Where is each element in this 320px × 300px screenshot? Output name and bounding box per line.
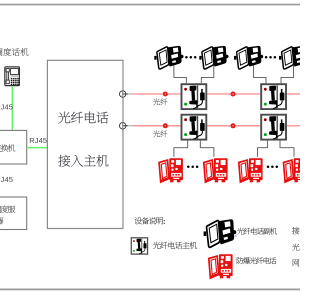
fiber line row2 seg2 [207,125,260,127]
legend label exproof [237,257,277,264]
edge char 光 [292,244,299,251]
fiber phone host unit U4 [261,115,286,140]
dispatch desk phone icon [5,67,20,86]
edge char 接 [292,227,299,234]
server box label line2 [0,217,3,224]
host main box 光纤电话接入主机 [47,60,123,228]
fiber line row1 seg2 [207,93,260,95]
svg-text:RJ45: RJ45 [0,175,13,184]
fiber splice node row2 a [163,123,168,128]
legend label host [153,242,197,249]
host label line2 [58,155,108,167]
black phone x=234.0 [234,46,263,69]
svg-text:RJ45: RJ45 [0,102,13,111]
wire phone to exchange (green) [11,86,13,130]
svg-text:*: * [235,235,238,242]
wire exchange to host (green) [27,147,48,149]
server box label line1 [0,205,15,212]
wires phones to U2 [254,66,266,84]
top border line [0,4,300,5]
legend label extension [237,228,277,235]
label fiber row1 [153,98,167,105]
legend black phone icon [204,219,237,247]
fiber line row2 seg3 [287,125,300,127]
host label line1 [58,112,108,124]
ellipsis dots bottom row [187,166,190,169]
black phone x=279.0 [279,46,308,69]
red phone x=237.0 [239,158,263,182]
fiber phone host unit U1 [182,84,207,109]
black phone x=199.3 [199,46,228,69]
host port circle row2 [120,123,126,129]
fiber splice node row1 b [231,92,236,97]
legend red phone icon [209,254,233,278]
server box 调度服务器 [0,197,27,230]
wires U3 to explosion-proof phones [174,141,188,157]
black phone x=154.3 [154,46,183,69]
red phone x=157.3 [159,158,183,182]
fiber line row1 seg1 [134,93,181,95]
wires phones to U1 [174,66,186,84]
fiber splice node row2 b [231,123,236,128]
fiber line row1 seg3 [287,93,300,95]
label dispatch-phone 调度话机 [0,48,29,56]
edge char 网 [293,259,300,266]
ellipsis dots top row [185,56,188,59]
red phone x=281.7 [284,158,308,182]
exchange box label [0,144,15,151]
wires U4 to explosion-proof phones [258,141,268,157]
fiber phone host unit U2 [261,84,286,109]
host port circle row1 [120,91,126,97]
legend title 设备说明 [135,217,163,224]
fiber phone host unit U3 [182,115,207,140]
label fiber row2 [153,130,167,137]
fiber splice node row1 a [163,92,168,97]
exchange box 程控交换机 [0,130,27,164]
fiber line row2 seg1 [134,125,181,127]
svg-text:RJ45: RJ45 [29,136,47,145]
red phone x=202.0 [204,158,228,182]
bottom border line [0,289,300,291]
legend host unit icon [131,238,147,254]
